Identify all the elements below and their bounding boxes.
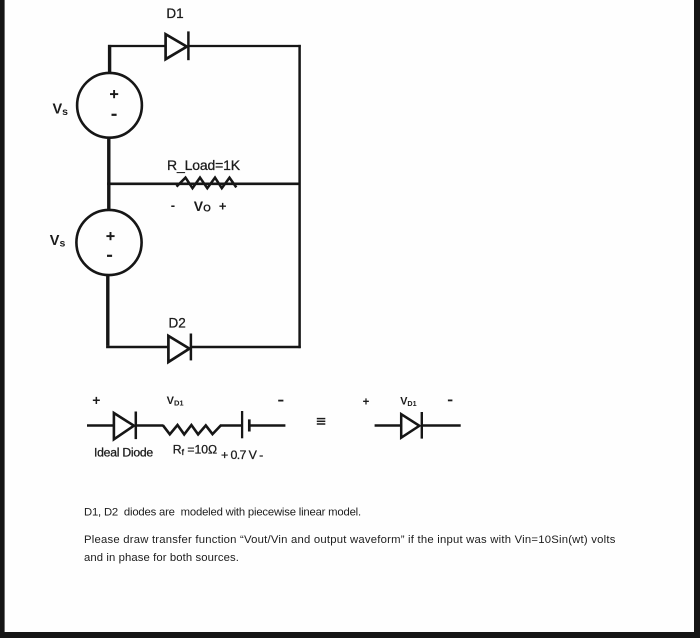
plus sign Vs2: [106, 232, 114, 240]
svg-text:Please draw transfer function: Please draw transfer function “Vout/Vin …: [84, 534, 616, 546]
wire top-right horizontal: [188, 45, 300, 47]
svg-text:+: +: [92, 392, 100, 408]
wire model-left lead-in: [87, 424, 114, 426]
minus sign Vs1: [112, 114, 117, 116]
svg-text:D1: D1: [166, 6, 183, 21]
wire model-left lead-out: [249, 424, 285, 426]
diode VD1 (model right): [401, 412, 422, 439]
source Vs1 circle: [77, 73, 142, 138]
minus sign Vs2: [107, 255, 112, 257]
svg-text:D2: D2: [169, 316, 186, 331]
page edge left black bar: [0, 0, 5, 638]
diode D1: [166, 31, 189, 60]
wire middle horizontal: [107, 183, 300, 186]
label minus (model right): [448, 399, 453, 401]
svg-text:+: +: [363, 397, 370, 409]
plus sign Vs1: [110, 90, 118, 98]
ideal diode symbol: [114, 412, 136, 440]
resistor R_Load zigzag: [177, 178, 237, 189]
wire between sources: [107, 137, 110, 211]
wire right vertical: [298, 45, 301, 348]
svg-text:and in phase for both sources.: and in phase for both sources.: [84, 552, 239, 564]
wire model-right lead-out: [422, 424, 461, 426]
battery 0.7V long plate: [241, 411, 243, 438]
wire diode to resistor: [136, 424, 164, 426]
svg-text:-: -: [171, 198, 175, 213]
wire bottom-left horizontal: [106, 346, 169, 349]
source Vs2 circle: [76, 210, 141, 275]
wire bottom-right horizontal: [191, 346, 301, 349]
page edge right black bar: [694, 0, 700, 638]
wire stub above source Vs1: [108, 45, 111, 74]
svg-text:Ideal Diode: Ideal Diode: [94, 445, 153, 459]
equivalence sign: [317, 419, 326, 424]
svg-text:+ 0.7 V -: + 0.7 V -: [221, 448, 263, 462]
wire below source Vs2: [106, 274, 109, 346]
label minus Vo plus: [171, 198, 227, 215]
diode D2: [168, 334, 191, 363]
wire top-left horizontal: [108, 45, 166, 47]
resistor Rf zigzag: [163, 425, 221, 435]
svg-text:+: +: [219, 198, 227, 213]
label minus (model left): [278, 400, 283, 402]
battery 0.7V short plate: [248, 419, 251, 431]
wire resistor to battery: [221, 424, 241, 426]
svg-text:R_Load=1K: R_Load=1K: [167, 157, 241, 173]
svg-text:Rf =10Ω: Rf =10Ω: [173, 443, 217, 458]
svg-text:D1, D2 diodes are modeled wi: D1, D2 diodes are modeled with piecewise…: [84, 506, 361, 518]
page edge bottom black bar: [0, 632, 700, 638]
wire model-right lead-in: [375, 424, 402, 426]
